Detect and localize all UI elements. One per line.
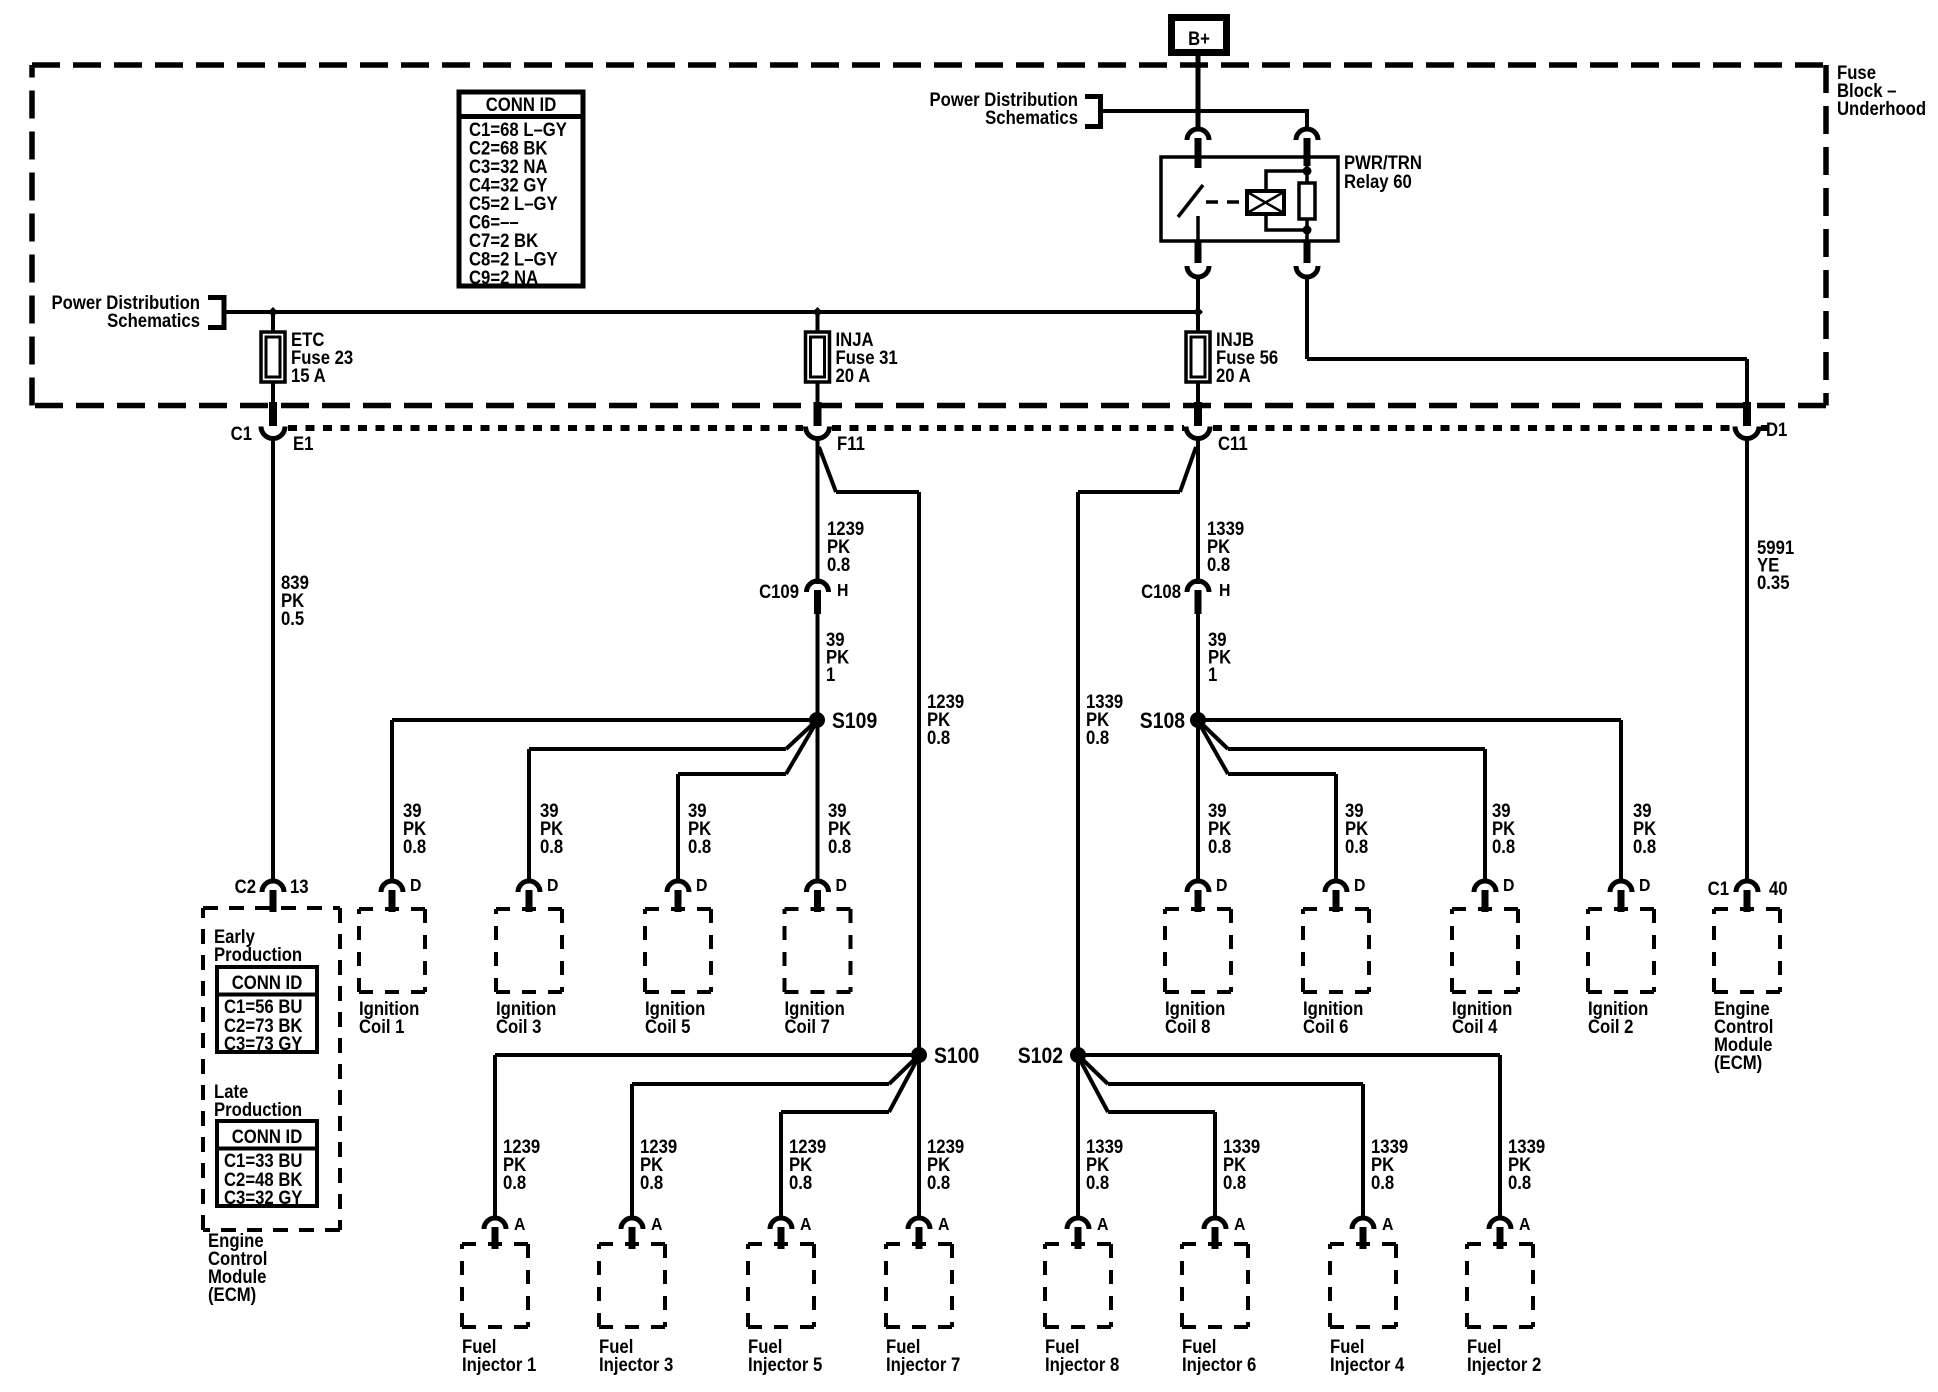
- wire S100 to fuel injector 1: [493, 1053, 919, 1219]
- svg-text:D: D: [547, 875, 558, 895]
- connector ignition coil 5 pin D: [667, 881, 689, 912]
- svg-text:F11: F11: [837, 433, 865, 454]
- label 1239 PK 0.8: [927, 1136, 964, 1193]
- label 839 PK 0.5: [281, 572, 309, 629]
- label 39 PK 0.8: [1492, 800, 1515, 857]
- label 1239 PK 0.8 (riser): [927, 691, 964, 748]
- svg-text:A: A: [1234, 1214, 1245, 1234]
- wire S108 to ignition coil 8: [1196, 720, 1200, 882]
- svg-text:0.8: 0.8: [540, 836, 563, 857]
- svg-text:Injector 7: Injector 7: [886, 1354, 960, 1375]
- svg-text:Coil 7: Coil 7: [785, 1016, 831, 1037]
- svg-text:A: A: [938, 1214, 949, 1234]
- svg-text:A: A: [1519, 1214, 1530, 1234]
- svg-text:Injector 6: Injector 6: [1182, 1354, 1256, 1375]
- label ignition coil 7: [785, 998, 845, 1037]
- relay coil: [1247, 191, 1284, 214]
- svg-text:0.8: 0.8: [1086, 1172, 1109, 1193]
- label fuel injector 4: [1330, 1336, 1404, 1375]
- wire S109 to ignition coil 7: [816, 720, 820, 882]
- wire S102 to fuel injector 8: [1076, 1055, 1080, 1219]
- svg-text:Injector 1: Injector 1: [462, 1354, 536, 1375]
- connector fuel injector 8 pin A: [1067, 1218, 1089, 1249]
- table CONN ID early production: [217, 967, 317, 1054]
- wire S100 to fuel injector 5: [779, 1058, 918, 1219]
- svg-text:D: D: [1216, 875, 1227, 895]
- svg-text:0.8: 0.8: [1223, 1172, 1246, 1193]
- svg-text:Injector 3: Injector 3: [599, 1354, 673, 1375]
- label fuel injector 6: [1182, 1336, 1256, 1375]
- connector fuel injector 2 pin A: [1489, 1218, 1511, 1249]
- fuel injector 4 dashed box: [1330, 1244, 1396, 1327]
- svg-text:Coil 4: Coil 4: [1452, 1016, 1498, 1037]
- engine control module (ECM) left dashed box: [203, 908, 340, 1230]
- svg-text:Relay 60: Relay 60: [1344, 171, 1412, 192]
- label ignition coil 1: [359, 998, 419, 1037]
- fuel injector 8 dashed box: [1045, 1244, 1111, 1327]
- svg-text:D: D: [1503, 875, 1514, 895]
- relay coil wiring loop: [1266, 171, 1307, 230]
- junction coil top: [1303, 167, 1312, 176]
- connector harness dotted line: [288, 425, 1768, 431]
- svg-text:S109: S109: [832, 709, 877, 733]
- svg-text:Coil 1: Coil 1: [359, 1016, 405, 1037]
- svg-text:Schematics: Schematics: [985, 107, 1078, 128]
- svg-text:A: A: [1097, 1214, 1108, 1234]
- svg-text:H: H: [837, 580, 848, 600]
- relay PWR/TRN Relay 60: [1161, 157, 1338, 241]
- svg-text:S108: S108: [1140, 709, 1185, 733]
- connector fuel injector 1 pin A: [484, 1218, 506, 1249]
- ignition coil 4 dashed box: [1452, 909, 1518, 992]
- fuse block underhood dashed box: [32, 65, 1826, 406]
- svg-text:D1: D1: [1766, 419, 1787, 440]
- svg-text:CONN ID: CONN ID: [486, 94, 557, 115]
- label Engine Control Module (ECM) left: [208, 1230, 267, 1305]
- svg-text:0.5: 0.5: [281, 608, 304, 629]
- connector ignition coil 6 pin D: [1325, 881, 1347, 912]
- wire S108 to ignition coil 2: [1198, 718, 1623, 882]
- svg-text:C108: C108: [1141, 581, 1181, 602]
- svg-text:0.8: 0.8: [1208, 836, 1231, 857]
- svg-text:0.8: 0.8: [1086, 727, 1109, 748]
- connector fuel injector 3 pin A: [621, 1218, 643, 1249]
- svg-text:(ECM): (ECM): [1714, 1052, 1762, 1073]
- label fuel injector 5: [748, 1336, 822, 1375]
- wire S108 to ignition coil 4: [1200, 722, 1487, 882]
- fuse INJA Fuse 31: [806, 312, 898, 404]
- svg-text:A: A: [651, 1214, 662, 1234]
- svg-text:C2: C2: [235, 876, 256, 897]
- svg-text:0.8: 0.8: [827, 554, 850, 575]
- connector fuel injector 4 pin A: [1352, 1218, 1374, 1249]
- svg-text:0.8: 0.8: [640, 1172, 663, 1193]
- label ignition coil 8: [1165, 998, 1225, 1037]
- svg-text:D: D: [410, 875, 421, 895]
- label ignition coil 3: [496, 998, 556, 1037]
- connector C1 / E1: [261, 402, 285, 439]
- wire bus to relay: [1103, 109, 1309, 128]
- junction B+ bus: [1193, 106, 1203, 116]
- wire S109 to ignition coil 1: [390, 718, 817, 882]
- svg-text:E1: E1: [293, 433, 313, 454]
- svg-text:0.8: 0.8: [1207, 554, 1230, 575]
- fuel injector 5 dashed box: [748, 1244, 814, 1327]
- label fuel injector 2: [1467, 1336, 1541, 1375]
- svg-text:Production: Production: [214, 944, 302, 965]
- svg-text:H: H: [1219, 580, 1230, 600]
- label 39 PK 0.8: [1345, 800, 1368, 857]
- connector F11: [806, 402, 830, 439]
- wire S100 to fuel injector 7: [917, 1055, 921, 1219]
- splice S108: [1190, 712, 1206, 728]
- svg-text:0.8: 0.8: [1633, 836, 1656, 857]
- wire C11 to C108: [1196, 438, 1200, 584]
- label 1339 PK 0.8 (C11 branch): [1207, 518, 1244, 575]
- label fuel injector 1: [462, 1336, 536, 1375]
- svg-text:0.8: 0.8: [503, 1172, 526, 1193]
- wire S109 to ignition coil 3: [527, 722, 815, 882]
- svg-text:0.8: 0.8: [927, 727, 950, 748]
- connector C11: [1186, 402, 1210, 439]
- fuel injector 7 dashed box: [886, 1244, 952, 1327]
- wire S100 to fuel injector 3: [630, 1057, 917, 1219]
- label fuel injector 3: [599, 1336, 673, 1375]
- label Power Distribution Schematics (left): [52, 292, 201, 331]
- bus wire (lower): [226, 310, 1198, 314]
- relay pin 3 connector (bottom left): [1187, 241, 1209, 277]
- svg-text:0.8: 0.8: [927, 1172, 950, 1193]
- connector C108 pin H: [1187, 581, 1209, 614]
- svg-text:0.8: 0.8: [1371, 1172, 1394, 1193]
- svg-text:13: 13: [290, 876, 309, 897]
- connector ignition coil 4 pin D: [1474, 881, 1496, 912]
- svg-text:A: A: [800, 1214, 811, 1234]
- connector fuel injector 6 pin A: [1204, 1218, 1226, 1249]
- svg-text:0.8: 0.8: [403, 836, 426, 857]
- wire S109 to ignition coil 5: [676, 723, 816, 882]
- wire branch C11 to S102 riser (1339 PK): [1076, 447, 1196, 1049]
- connector ignition coil 2 pin D: [1610, 881, 1632, 912]
- label 39 PK 0.8: [403, 800, 426, 857]
- svg-text:C3=32 GY: C3=32 GY: [224, 1187, 303, 1208]
- relay switch contact: [1178, 185, 1203, 241]
- svg-text:S100: S100: [934, 1044, 979, 1068]
- connector D1: [1735, 402, 1759, 439]
- svg-text:0.8: 0.8: [1492, 836, 1515, 857]
- svg-text:C3=73 GY: C3=73 GY: [224, 1033, 303, 1054]
- svg-text:CONN ID: CONN ID: [232, 972, 303, 993]
- label 1339 PK 0.8 (riser): [1086, 691, 1123, 748]
- svg-text:A: A: [514, 1214, 525, 1234]
- label 1339 PK 0.8: [1371, 1136, 1408, 1193]
- svg-text:15 A: 15 A: [291, 365, 326, 386]
- wire F11 to C109: [816, 438, 820, 584]
- wire relay pin 3 to fuse bus: [1196, 278, 1200, 333]
- label 39 PK 0.8: [828, 800, 851, 857]
- label ignition coil 5: [645, 998, 705, 1037]
- svg-text:40: 40: [1769, 878, 1788, 899]
- engine control module (ECM) right dashed box: [1714, 909, 1780, 992]
- svg-text:Coil 5: Coil 5: [645, 1016, 691, 1037]
- svg-text:Schematics: Schematics: [107, 310, 200, 331]
- table CONN ID fuse block: [459, 92, 583, 288]
- ignition coil 8 dashed box: [1165, 909, 1231, 992]
- junction INJA tap: [813, 307, 823, 317]
- label ignition coil 6: [1303, 998, 1363, 1037]
- svg-text:Coil 6: Coil 6: [1303, 1016, 1349, 1037]
- svg-text:C1: C1: [1708, 878, 1729, 899]
- relay pin 1 connector (top left): [1187, 129, 1209, 168]
- label 1339 PK 0.8: [1223, 1136, 1260, 1193]
- label 39 PK 0.8: [1208, 800, 1231, 857]
- svg-text:Coil 8: Coil 8: [1165, 1016, 1211, 1037]
- wire S102 to fuel injector 2: [1078, 1053, 1502, 1219]
- label 1339 PK 0.8: [1086, 1136, 1123, 1193]
- svg-text:0.8: 0.8: [1345, 836, 1368, 857]
- svg-text:B+: B+: [1188, 28, 1210, 49]
- svg-text:A: A: [1382, 1214, 1393, 1234]
- svg-text:0.8: 0.8: [789, 1172, 812, 1193]
- splice S102: [1070, 1047, 1086, 1063]
- svg-text:CONN ID: CONN ID: [232, 1126, 303, 1147]
- svg-text:S102: S102: [1018, 1044, 1063, 1068]
- svg-text:Injector 5: Injector 5: [748, 1354, 822, 1375]
- label 1239 PK 0.8: [640, 1136, 677, 1193]
- fuel injector 2 dashed box: [1467, 1244, 1533, 1327]
- ignition coil 6 dashed box: [1303, 909, 1369, 992]
- svg-text:0.35: 0.35: [1757, 572, 1790, 593]
- relay actuation dashed link: [1206, 200, 1247, 204]
- wire C108 to S108 (39 PK 1): [1196, 614, 1200, 720]
- fuel injector 1 dashed box: [462, 1244, 528, 1327]
- label fuel injector 7: [886, 1336, 960, 1375]
- fuel injector 3 dashed box: [599, 1244, 665, 1327]
- splice S109: [809, 712, 825, 728]
- label ignition coil 2: [1588, 998, 1648, 1037]
- svg-text:D: D: [1354, 875, 1365, 895]
- svg-text:Coil 3: Coil 3: [496, 1016, 542, 1037]
- label 39 PK 0.8: [540, 800, 563, 857]
- connector ignition coil 7 pin D: [807, 881, 829, 912]
- bracket (left): [208, 295, 227, 330]
- svg-text:C109: C109: [759, 581, 799, 602]
- fuse ETC Fuse 23: [261, 312, 353, 404]
- fuse INJB Fuse 56: [1186, 312, 1278, 404]
- svg-text:1: 1: [1208, 664, 1217, 685]
- ignition coil 3 dashed box: [496, 909, 562, 992]
- svg-text:(ECM): (ECM): [208, 1284, 256, 1305]
- connector ignition coil 3 pin D: [518, 881, 540, 912]
- connector fuel injector 7 pin A: [908, 1218, 930, 1249]
- ignition coil 2 dashed box: [1588, 909, 1654, 992]
- label Power Distribution Schematics (top): [930, 89, 1079, 128]
- label 39 PK 0.8: [1633, 800, 1656, 857]
- svg-text:Underhood: Underhood: [1837, 98, 1926, 119]
- label Engine Control Module (ECM) right: [1714, 998, 1773, 1073]
- wire branch F11 to S100 riser (1239 PK): [819, 447, 921, 1049]
- svg-text:D: D: [1639, 875, 1650, 895]
- junction coil bottom: [1303, 226, 1312, 235]
- battery feed B+: [1172, 18, 1227, 53]
- label 39 PK 1 (right): [1208, 629, 1231, 685]
- splice S100: [911, 1047, 927, 1063]
- label 5991 YE 0.35: [1757, 537, 1794, 593]
- table CONN ID late production: [217, 1121, 317, 1208]
- wire B+ to bus: [1196, 56, 1201, 111]
- junction INJB tap: [1193, 307, 1203, 317]
- connector fuel injector 5 pin A: [770, 1218, 792, 1249]
- label 1339 PK 0.8: [1508, 1136, 1545, 1193]
- svg-text:0.8: 0.8: [1508, 1172, 1531, 1193]
- svg-text:Injector 2: Injector 2: [1467, 1354, 1541, 1375]
- wire S102 to fuel injector 6: [1079, 1058, 1217, 1219]
- svg-text:Coil 2: Coil 2: [1588, 1016, 1634, 1037]
- svg-text:0.8: 0.8: [688, 836, 711, 857]
- label 39 PK 1: [826, 629, 849, 685]
- label 1239 PK 0.8: [503, 1136, 540, 1193]
- label 1239 PK 0.8 (F11 branch): [827, 518, 864, 575]
- connector C109 pin H: [807, 581, 829, 614]
- ignition coil 5 dashed box: [645, 909, 711, 992]
- wire 839 PK 0.5: [271, 438, 275, 882]
- svg-text:20 A: 20 A: [836, 365, 871, 386]
- relay resistor: [1299, 166, 1315, 241]
- svg-text:D: D: [696, 875, 707, 895]
- label Fuse Block - Underhood: [1837, 62, 1926, 119]
- ignition coil 7 dashed box: [785, 909, 851, 992]
- label Late Production: [214, 1081, 302, 1120]
- label fuel injector 8: [1045, 1336, 1119, 1375]
- fuel injector 6 dashed box: [1182, 1244, 1248, 1327]
- label 39 PK 0.8: [688, 800, 711, 857]
- wire S102 to fuel injector 4: [1080, 1057, 1365, 1219]
- svg-text:C11: C11: [1218, 433, 1248, 454]
- label PWR/TRN Relay 60: [1344, 152, 1422, 192]
- svg-text:0.8: 0.8: [828, 836, 851, 857]
- wire S108 to ignition coil 6: [1199, 723, 1338, 882]
- wire C109 to S109 (39 PK 1): [816, 614, 820, 720]
- wire relay pin 4 to connector D1: [1305, 278, 1749, 404]
- svg-text:20 A: 20 A: [1216, 365, 1251, 386]
- relay pin 4 connector (bottom right): [1296, 241, 1318, 277]
- bracket (top): [1085, 94, 1103, 129]
- svg-text:C9=2 NA: C9=2 NA: [469, 267, 538, 288]
- label 1239 PK 0.8: [789, 1136, 826, 1193]
- connector C1 pin 40 (ECM): [1736, 881, 1758, 912]
- connector ignition coil 8 pin D: [1187, 881, 1209, 912]
- junction ETC tap: [268, 307, 278, 317]
- svg-text:Production: Production: [214, 1099, 302, 1120]
- label Early Production: [214, 926, 302, 965]
- svg-text:D: D: [836, 875, 847, 895]
- svg-text:Injector 8: Injector 8: [1045, 1354, 1119, 1375]
- wire D1 to ECM (5991 YE 0.35): [1745, 438, 1749, 882]
- label ignition coil 4: [1452, 998, 1512, 1037]
- wire bus junction down to relay pin 1: [1196, 111, 1201, 130]
- ignition coil 1 dashed box: [359, 909, 425, 992]
- connector C2 pin 13 (ECM early): [262, 881, 284, 912]
- relay pin 2 connector (top right): [1296, 129, 1318, 166]
- connector ignition coil 1 pin D: [381, 881, 403, 912]
- svg-text:Injector 4: Injector 4: [1330, 1354, 1404, 1375]
- svg-text:1: 1: [826, 664, 835, 685]
- svg-text:C1: C1: [231, 423, 252, 444]
